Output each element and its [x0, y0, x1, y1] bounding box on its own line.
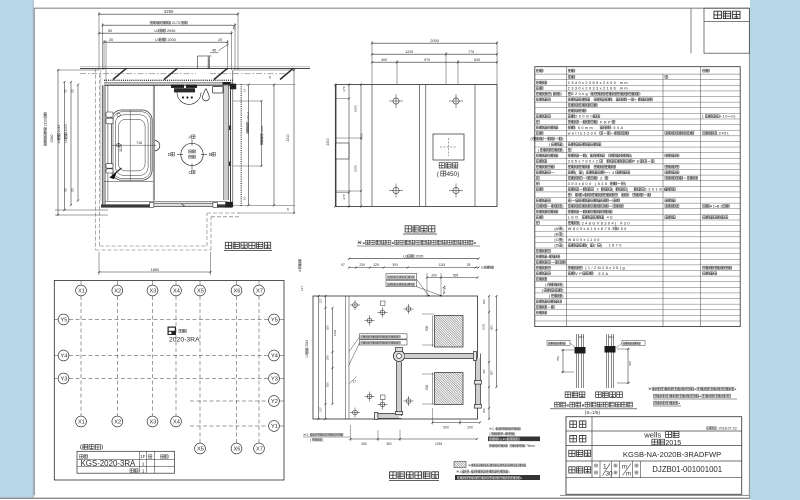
svg-text:920: 920 [326, 325, 330, 330]
bath unit right wall band [224, 85, 229, 200]
svg-text:1020: 1020 [481, 323, 485, 330]
svg-text:1115: 1115 [439, 263, 446, 267]
dim U3 2095 [99, 32, 232, 34]
svg-text:50: 50 [63, 89, 67, 93]
dim 1850 [99, 271, 211, 273]
leader boxes top [386, 274, 417, 280]
svg-text:200: 200 [467, 426, 473, 430]
svg-text:U3: U3 [403, 255, 408, 259]
bathtub rim 3 [116, 115, 149, 176]
X axis circles bottom row1 [76, 416, 87, 427]
svg-text:0): 0) [731, 115, 736, 119]
svg-text:393x600 (535: 393x600 (535 [568, 182, 609, 186]
receipt stamp box 受領印 [704, 8, 749, 53]
date small [706, 427, 709, 430]
svg-text:2250: 2250 [164, 9, 174, 14]
svg-text:U3: U3 [57, 139, 61, 143]
svg-text:127: 127 [300, 286, 304, 291]
receipt column divider line [690, 8, 692, 53]
svg-text:Y5: Y5 [60, 317, 67, 323]
svg-text:Rc1: Rc1 [579, 335, 585, 339]
piping right note block [489, 428, 491, 430]
svg-text:2340x2085x2400 mm: 2340x2085x2400 mm [568, 81, 629, 85]
svg-text:(: ( [702, 115, 704, 119]
dim U3 2000 [104, 41, 228, 43]
sheet left edge shade [32, 0, 34, 498]
svg-text:X1: X1 [78, 419, 85, 425]
svg-text:): ) [631, 154, 634, 158]
svg-text:PE: PE [633, 160, 641, 164]
dim extension lines [98, 12, 100, 70]
svg-text:): ) [514, 432, 515, 436]
svg-text:50: 50 [108, 29, 112, 33]
handle arrow bottom-left of tub [112, 168, 121, 176]
svg-text:16: 16 [242, 196, 246, 200]
svg-text:2020-3RA: 2020-3RA [169, 337, 200, 344]
svg-text:2000: 2000 [166, 38, 176, 42]
door handle marks [229, 126, 231, 131]
svg-text:2015: 2015 [665, 438, 681, 447]
svg-text:Y1: Y1 [271, 424, 278, 430]
duct left line and cap [197, 56, 199, 69]
svg-text:): ) [627, 188, 632, 192]
door corner block bottom-right [225, 202, 232, 208]
bath unit icon labels [179, 329, 182, 332]
bathtub rim 2 [113, 112, 151, 179]
hatched block A [435, 316, 464, 348]
right dims verticals [248, 85, 250, 206]
piping dim U3 2095 [349, 258, 479, 260]
svg-text::50mm: :50mm [575, 126, 599, 130]
svg-text:U3: U3 [154, 29, 159, 33]
svg-text:1946: 1946 [260, 125, 264, 133]
svg-text:m: m [626, 472, 631, 478]
svg-text:4E: 4E [604, 216, 614, 220]
svg-text::245L: :245L [717, 132, 730, 136]
bath unit bottom wall [105, 201, 227, 203]
wash-side pipe detail [606, 334, 608, 388]
X axis circles bottom row2 [195, 443, 206, 454]
piping plan group 基礎伏配管図 [298, 255, 540, 481]
Y axis circles right [269, 314, 280, 325]
svg-text:500: 500 [425, 325, 429, 331]
svg-text:500: 500 [443, 426, 449, 430]
svg-text:X1: X1 [78, 288, 85, 294]
dim 1225 775 [372, 53, 497, 55]
svg-text:957: 957 [490, 370, 494, 375]
svg-text:+4: +4 [608, 171, 615, 175]
svg-text:200: 200 [482, 299, 486, 304]
ceiling left dims [348, 85, 350, 207]
svg-text:20: 20 [70, 188, 74, 192]
svg-text:): ) [625, 182, 628, 186]
svg-text:920: 920 [326, 382, 330, 387]
svg-text:(D: (D [554, 244, 558, 248]
svg-text:(C: (C [554, 238, 558, 242]
svg-text:(S=1/5): (S=1/5) [585, 410, 601, 415]
svg-text:1850: 1850 [151, 268, 159, 272]
pipe valve circle [393, 350, 404, 361]
window bottom edge line [0, 498, 750, 499]
ceiling crosshair anchors [393, 98, 399, 104]
svg-text:2: 2 [598, 176, 604, 180]
svg-text:(: ( [586, 244, 589, 248]
building wall dashed outline [95, 69, 97, 250]
deck half-circle counter [155, 141, 160, 151]
svg-text:2095: 2095 [166, 29, 176, 33]
svg-text:: 2018.07.23: : 2018.07.23 [717, 427, 737, 431]
bath unit left wall band [103, 85, 106, 204]
svg-text:X4: X4 [173, 419, 180, 425]
pipe spec note [649, 387, 652, 390]
ceiling inner column lines [371, 85, 373, 207]
top-right corner block [230, 84, 236, 90]
svg-text:1292: 1292 [333, 329, 337, 336]
svg-text:270: 270 [342, 86, 346, 91]
svg-text:362: 362 [386, 442, 392, 446]
bathtub drain [117, 143, 121, 147]
svg-text:200: 200 [482, 408, 486, 413]
svg-text:1F: 1F [140, 454, 145, 459]
left dims verticals [57, 70, 59, 215]
piping anchors [353, 303, 358, 308]
bathtub center lines + labels [112, 144, 157, 146]
svg-text:Y5: Y5 [271, 317, 278, 323]
svg-text:16: 16 [242, 88, 246, 92]
svg-text:78mm: 78mm [525, 444, 535, 448]
svg-text:2000: 2000 [64, 124, 68, 133]
svg-text:+: + [634, 98, 638, 102]
svg-text:W800x1100: W800x1100 [568, 238, 601, 242]
svg-text:1: 1 [142, 468, 145, 474]
svg-text::: : [629, 193, 632, 197]
svg-text:200: 200 [431, 273, 437, 277]
title labels [570, 421, 577, 428]
svg-text:FRP: FRP [598, 120, 612, 124]
svg-text:2310: 2310 [286, 134, 290, 142]
svg-text:B: B [209, 152, 212, 157]
svg-text:20: 20 [218, 38, 222, 42]
shower head teardrop [203, 89, 210, 101]
svg-text:A1: A1 [710, 204, 716, 208]
piping plan rect [313, 296, 478, 419]
spec table grid [535, 67, 740, 327]
ceiling panel rect [336, 85, 497, 207]
right wall fixture [223, 82, 231, 85]
dim 2250 [99, 13, 238, 15]
svg-text:230: 230 [359, 263, 365, 267]
svg-text:970: 970 [424, 58, 430, 62]
dims 200 595 top right [426, 273, 428, 296]
svg-text:1.: 1. [492, 427, 495, 431]
svg-text:Y4: Y4 [60, 353, 67, 359]
svg-text:450: 450 [361, 442, 367, 446]
svg-text:2.: 2. [306, 433, 309, 437]
svg-text:X7: X7 [256, 446, 263, 452]
hatch inner dim lines [422, 313, 435, 315]
foundation plan group [54, 281, 284, 481]
caption 平面納まり図 [225, 242, 231, 248]
spec table text [536, 69, 539, 72]
pipe horizontal run [405, 354, 476, 359]
svg-text:(: ( [586, 154, 589, 158]
svg-text:Y4: Y4 [271, 353, 278, 359]
svg-text:393: 393 [392, 263, 398, 267]
title block [566, 417, 742, 495]
svg-text:1000: 1000 [353, 165, 357, 172]
svg-text:127: 127 [319, 407, 323, 412]
compass center text [188, 150, 191, 153]
pipe vertical run [397, 362, 402, 416]
svg-text:716: 716 [136, 141, 142, 145]
svg-text:X7: X7 [256, 288, 263, 294]
svg-text:775: 775 [468, 50, 474, 54]
svg-text:30: 30 [63, 188, 67, 192]
inspection labels [439, 163, 444, 168]
connection detail group [547, 334, 737, 415]
svg-text:X2: X2 [114, 419, 121, 425]
ceiling note [358, 241, 362, 245]
svg-text:200mm: 200mm [575, 115, 595, 119]
mirror cabinet [213, 87, 224, 94]
svg-text:wells: wells [643, 431, 661, 440]
piping left inner column [345, 296, 347, 419]
svg-text:1000: 1000 [353, 105, 357, 112]
svg-text:2043: 2043 [305, 340, 309, 348]
svg-text:20: 20 [70, 89, 74, 93]
note bottom-left of piping [303, 434, 305, 436]
svg-text:520kg: 520kg [572, 92, 590, 96]
svg-text:X4: X4 [173, 288, 180, 294]
svg-text:2000: 2000 [430, 39, 438, 43]
daisu table label [80, 445, 83, 450]
left blue band [0, 0, 33, 498]
svg-text:2300: 2300 [326, 138, 330, 146]
labels bath/wash side [565, 392, 571, 398]
Y axis circles left [58, 314, 69, 325]
wall diagonal hatch slashes [113, 68, 127, 79]
svg-text:m: m [622, 465, 627, 471]
svg-text:208: 208 [326, 355, 330, 360]
svg-text:W800x610x675/: W800x610x675/ [568, 227, 614, 231]
bath unit top wall band [104, 79, 233, 81]
svg-text:Y3: Y3 [271, 376, 278, 382]
svg-text:LED: LED [568, 216, 582, 220]
piping bottom dims [433, 422, 481, 424]
dim 2000 [372, 42, 497, 44]
duct dotted column [208, 57, 210, 69]
svg-text:1: 1 [142, 462, 145, 468]
svg-text:50A: 50A [593, 272, 609, 276]
svg-text:2095: 2095 [414, 255, 423, 259]
svg-text:385x790x2: 385x790x2 [568, 160, 600, 164]
dims 200 595 17 [427, 277, 478, 279]
caption 天井伏図 [405, 226, 411, 232]
foundation dashed grid horizontals [69, 319, 269, 321]
svg-text:wells1200: wells1200 [568, 132, 598, 136]
svg-text:2120: 2120 [43, 119, 47, 127]
svg-text:752: 752 [556, 356, 560, 361]
svg-text:630: 630 [474, 58, 480, 62]
svg-text:+10: +10 [720, 115, 728, 119]
svg-text:47: 47 [286, 207, 290, 211]
svg-text::50A: :50A [611, 126, 625, 130]
svg-text:683: 683 [490, 325, 494, 330]
svg-text:850: 850 [617, 227, 628, 231]
svg-text:2043: 2043 [57, 125, 61, 134]
svg-text:450): 450) [446, 171, 459, 178]
svg-text:595: 595 [453, 273, 459, 277]
pipe right elbow down [475, 359, 480, 406]
svg-text::: : [612, 98, 615, 102]
left column notch [336, 143, 349, 159]
svg-text:X2: X2 [114, 288, 121, 294]
svg-text:B1: B1 [717, 204, 723, 208]
pads [381, 301, 386, 306]
piping sub dims [349, 267, 479, 269]
caption 基礎伏配管図 [390, 472, 397, 479]
projection row cells [599, 461, 601, 478]
svg-text:Y2: Y2 [271, 399, 278, 405]
dim 2170 [103, 24, 236, 26]
svg-text:270: 270 [342, 194, 346, 199]
shower counter fixture [171, 85, 184, 88]
svg-text:X3: X3 [149, 419, 156, 425]
svg-text:(A: (A [554, 227, 558, 231]
sliding door track [151, 203, 215, 207]
bath unit icon [168, 327, 177, 336]
svg-text:U3: U3 [64, 138, 68, 142]
svg-text:2330x2033x2166 mm: 2330x2033x2166 mm [568, 87, 629, 91]
svg-text:): ) [322, 438, 323, 442]
svg-text:1460: 1460 [359, 133, 363, 140]
right building wall dotted column [240, 84, 242, 206]
svg-text:X6: X6 [233, 446, 240, 452]
drawing frame border [34, 7, 750, 9]
tub faucet circle [117, 113, 120, 116]
bathtub inner basin [119, 119, 146, 171]
svg-text::: : [572, 193, 575, 197]
ceiling dim extensions [371, 41, 373, 84]
svg-text:47: 47 [268, 75, 272, 79]
svg-text:Y3: Y3 [60, 376, 67, 382]
dim 400 970 630 [372, 61, 497, 63]
floor plan group 平面納まり図 [43, 9, 310, 275]
svg-text:2170: 2170 [171, 21, 180, 25]
right blue band [750, 0, 800, 500]
svg-text:(: ( [612, 188, 615, 192]
X axis circles top [76, 285, 87, 296]
bathtub outer shell [112, 110, 153, 180]
svg-text:1201.4: 1201.4 [246, 111, 250, 121]
svg-text:KGSB-NA-2020B-3RADFWP: KGSB-NA-2020B-3RADFWP [623, 450, 721, 459]
orientation compass circle [181, 143, 203, 165]
svg-text:97: 97 [341, 263, 345, 267]
svg-text:X5: X5 [197, 288, 204, 294]
svg-text:X6: X6 [233, 288, 240, 294]
svg-text:KGS-2020-3RA: KGS-2020-3RA [81, 459, 137, 468]
svg-text:(B: (B [554, 233, 558, 237]
svg-text:400: 400 [381, 58, 387, 62]
svg-text:(: ( [575, 171, 578, 175]
svg-text:225: 225 [373, 263, 379, 267]
svg-text:645: 645 [628, 361, 632, 366]
svg-text:(248GV8304) #30: (248GV8304) #30 [579, 221, 631, 225]
svg-text:1253: 1253 [435, 442, 442, 446]
caption connection diagram [555, 402, 560, 407]
svg-text:25: 25 [467, 263, 471, 267]
svg-text:) 1670: ) 1670 [601, 244, 623, 248]
existing building wall top [80, 66, 310, 68]
svg-text:2: 2 [594, 244, 598, 248]
svg-text:25: 25 [233, 26, 237, 30]
svg-text:127: 127 [319, 298, 323, 303]
svg-text:): ) [582, 171, 585, 175]
tub deck edge lines [152, 85, 154, 200]
svg-text:2360: 2360 [50, 135, 54, 143]
svg-text:GL400: GL400 [498, 437, 508, 441]
daisu table [77, 451, 175, 473]
specification table [530, 67, 740, 327]
svg-text:20: 20 [109, 38, 113, 42]
svg-text:1225: 1225 [405, 50, 413, 54]
svg-text:500: 500 [425, 384, 429, 390]
piping right dims [488, 296, 490, 419]
svg-text:VP: VP [575, 272, 583, 276]
hatched block B [435, 373, 464, 405]
svg-text:Rc1: Rc1 [609, 335, 615, 339]
pipe bottom elbow [377, 414, 399, 419]
svg-text:(1/2M25x25)g: (1/2M25x25)g [583, 266, 626, 270]
svg-text:1123: 1123 [119, 144, 123, 152]
label 25 [233, 26, 237, 30]
svg-text:3: 3 [594, 188, 600, 192]
svg-text:475: 475 [482, 369, 486, 374]
piping left dims [318, 296, 320, 419]
tub apron line [104, 180, 153, 182]
ceiling plan group 天井伏図 [326, 39, 498, 246]
bath-side pipe detail [576, 334, 578, 388]
foundation dashed grid verticals [80, 296, 82, 416]
inspection opening square [433, 134, 464, 160]
svg-text:30: 30 [606, 471, 614, 478]
leader boxes mid [360, 334, 408, 339]
foundation outer rect [54, 281, 284, 481]
svg-text:X3: X3 [149, 288, 156, 294]
svg-text:U3: U3 [155, 38, 160, 42]
svg-text:45: 45 [212, 49, 216, 53]
svg-text:X5: X5 [197, 446, 204, 452]
hatch legend [454, 462, 466, 468]
svg-text:DJZB01-001001001: DJZB01-001001001 [652, 465, 722, 474]
left fixture clamps [106, 112, 113, 117]
